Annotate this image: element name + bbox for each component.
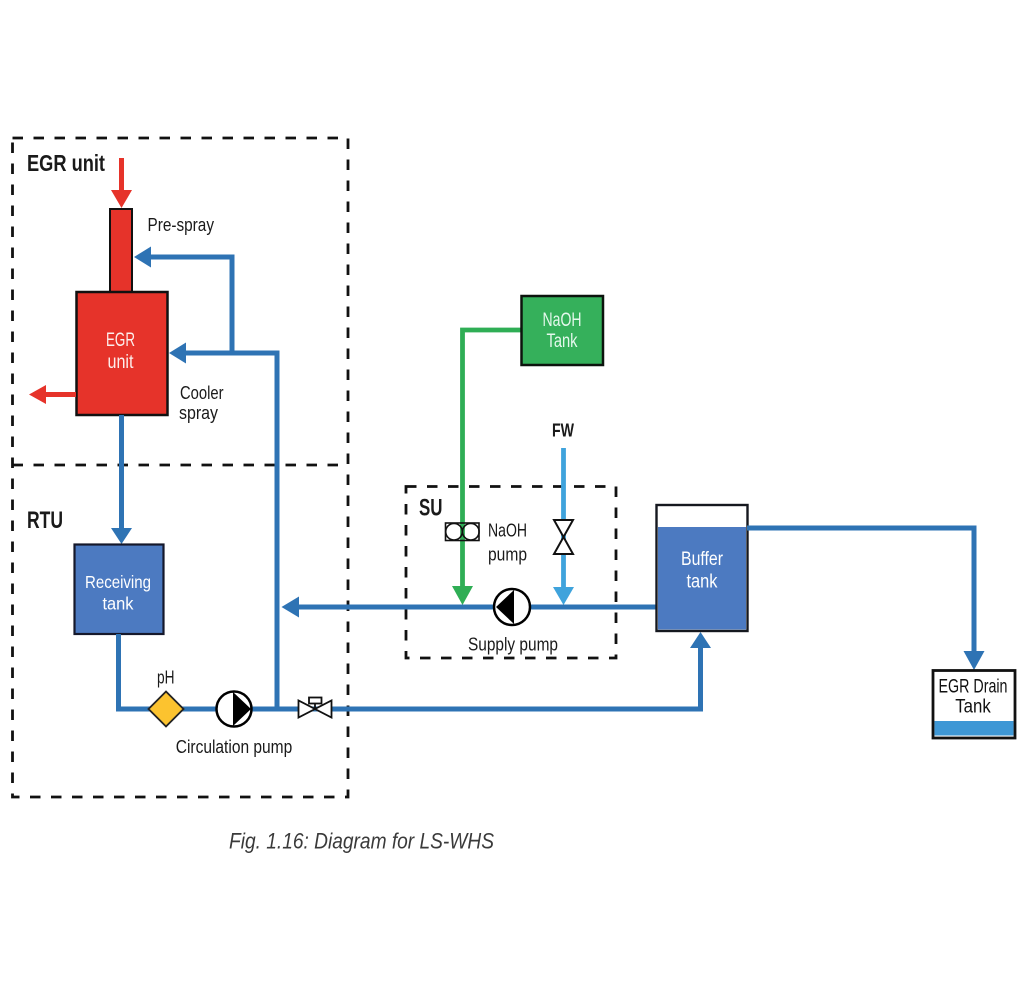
FW valve <box>554 520 573 554</box>
circulation valve <box>299 698 332 718</box>
svg-text:Receiving: Receiving <box>85 572 151 592</box>
pipe receiving tank down <box>116 634 121 712</box>
svg-text:Fig. 1.16: Diagram for LS-WHS: Fig. 1.16: Diagram for LS-WHS <box>229 829 494 854</box>
NaOH tank label <box>543 310 582 352</box>
supply pipe <box>298 605 657 610</box>
Buffer tank label <box>681 549 724 593</box>
svg-text:Cooler: Cooler <box>180 382 224 403</box>
FW arrowhead <box>553 587 574 605</box>
arrowhead into receiving tank <box>111 528 132 544</box>
svg-text:NaOH: NaOH <box>543 310 582 331</box>
svg-text:pump: pump <box>488 544 527 565</box>
EGR Drain Tank label <box>939 677 1008 718</box>
svg-text:tank: tank <box>103 594 134 614</box>
EGR unit vessel <box>77 292 168 415</box>
Receiving tank <box>75 545 164 635</box>
svg-text:Supply pump: Supply pump <box>468 634 558 655</box>
EGR Drain Tank <box>933 671 1015 739</box>
svg-text:Tank: Tank <box>955 697 991 718</box>
NaOH feed pipe <box>463 330 522 587</box>
EGR unit vessel label <box>106 330 135 373</box>
supply pipe arrowhead into RTU <box>282 597 300 618</box>
pH sensor diamond <box>149 692 184 727</box>
NaOH pump label <box>488 520 527 565</box>
svg-text:EGR Drain: EGR Drain <box>939 677 1008 698</box>
pre-spray pipe <box>149 257 235 356</box>
arrowhead into EGR drain tank <box>964 651 985 670</box>
svg-text:spray: spray <box>179 402 219 423</box>
red inlet arrow <box>111 158 132 208</box>
Receiving tank label <box>85 572 151 614</box>
svg-text:Pre-spray: Pre-spray <box>148 214 215 235</box>
pipe EGR vessel to receiving tank <box>119 415 124 529</box>
svg-text:SU: SU <box>419 495 443 522</box>
RTU divider dashed line <box>13 464 349 467</box>
cooler spray arrowhead <box>169 343 186 364</box>
svg-text:RTU: RTU <box>27 507 63 534</box>
Cooler spray label <box>179 382 224 423</box>
circulation pipe horizontal <box>116 707 703 712</box>
red outlet arrow <box>29 385 76 404</box>
FW pipe <box>561 448 566 588</box>
buffer overflow pipe <box>747 526 977 653</box>
svg-text:NaOH: NaOH <box>488 520 527 541</box>
return pipe up into buffer tank <box>698 648 703 712</box>
svg-text:EGR: EGR <box>106 330 135 351</box>
EGR unit dashed enclosure <box>13 138 349 797</box>
supply pump <box>494 589 530 625</box>
NaOH feed arrowhead <box>452 586 473 605</box>
svg-text:Buffer: Buffer <box>681 549 724 570</box>
circulation pump <box>217 692 252 727</box>
svg-text:FW: FW <box>552 421 574 441</box>
NaOH tank <box>522 296 604 365</box>
svg-text:Circulation pump: Circulation pump <box>176 736 293 757</box>
svg-text:unit: unit <box>108 352 135 373</box>
NaOH pump symbol <box>446 523 480 541</box>
pre-spray arrowhead <box>134 247 151 268</box>
svg-text:tank: tank <box>687 572 718 593</box>
arrowhead into buffer tank bottom <box>690 632 711 648</box>
SU dashed box <box>406 487 616 659</box>
svg-text:EGR unit: EGR unit <box>27 150 105 176</box>
cooler spray pipe <box>186 351 280 712</box>
svg-text:pH: pH <box>157 667 175 688</box>
svg-text:Tank: Tank <box>547 331 578 352</box>
chimney duct <box>110 209 132 293</box>
Buffer tank <box>657 505 748 631</box>
